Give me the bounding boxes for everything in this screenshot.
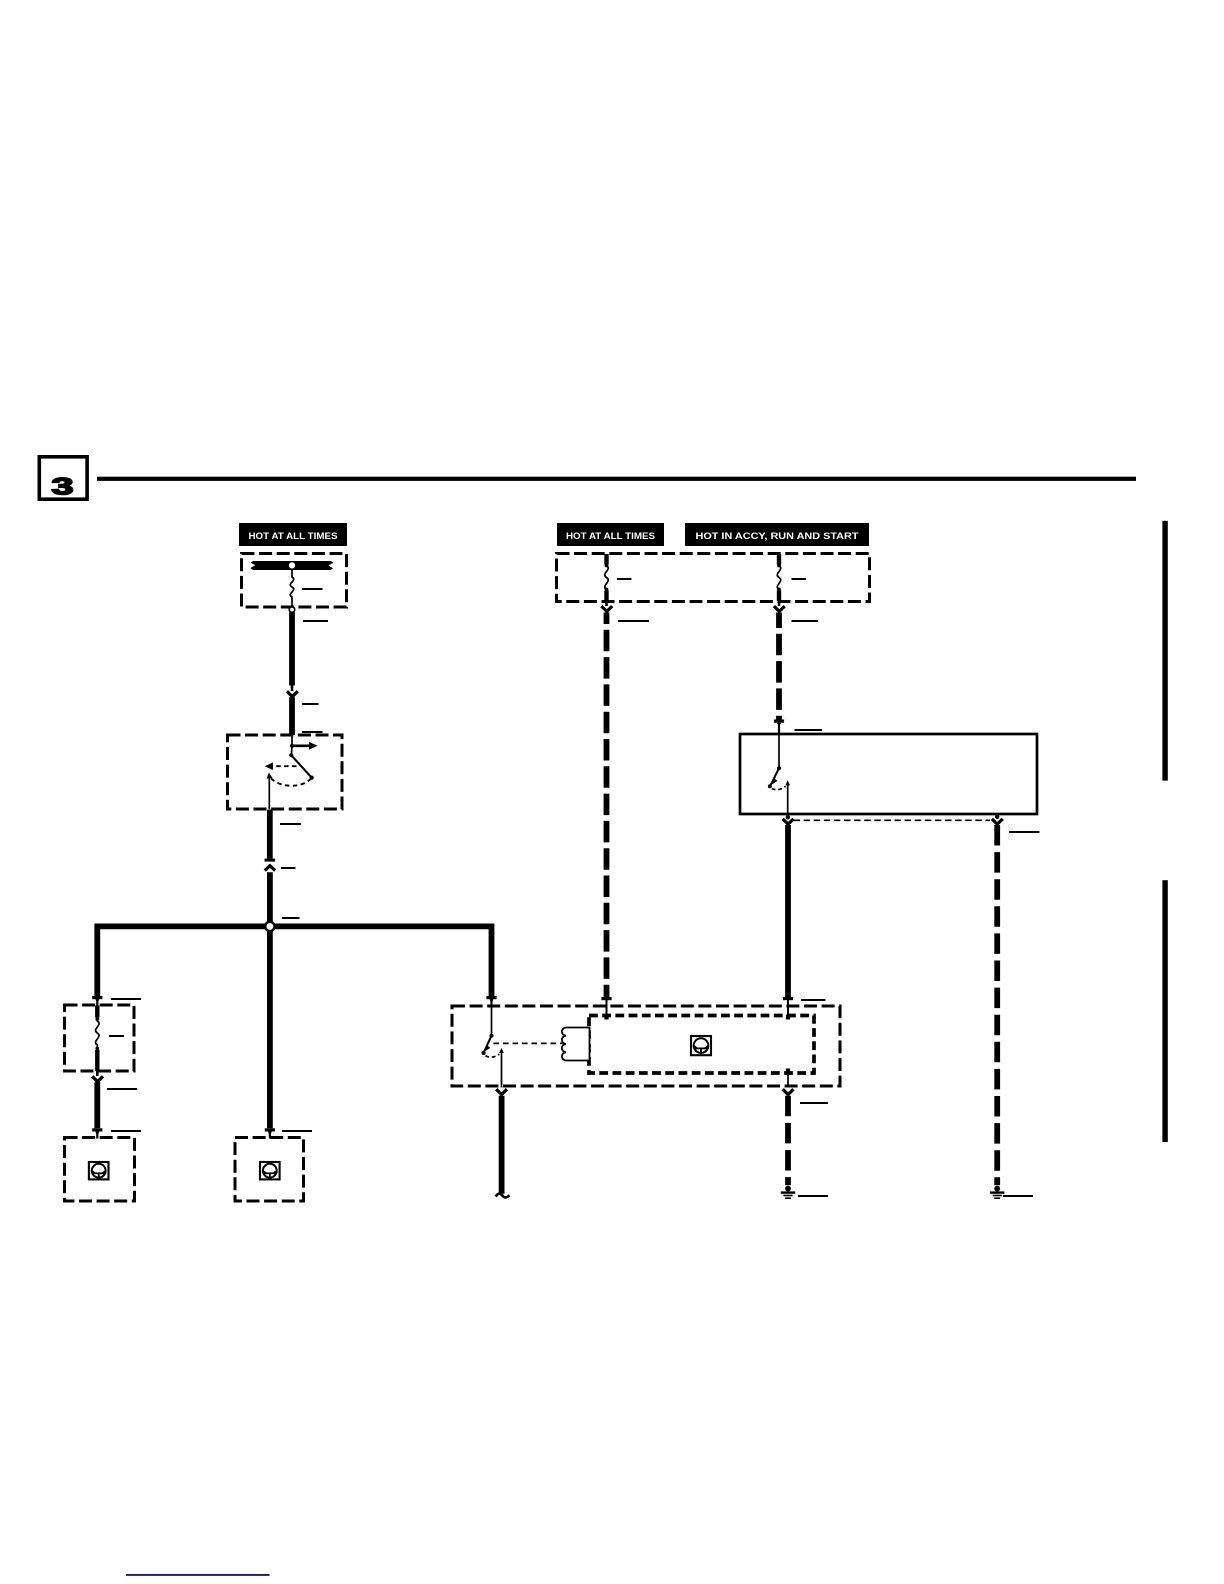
wire W1	[289, 612, 295, 685]
ground G2	[781, 1186, 795, 1199]
switch S1 output arrow (right)	[292, 742, 318, 750]
connector A2 label line	[281, 867, 296, 869]
connector A7 (foot and pin into outer assembly box)	[486, 996, 496, 1007]
fuse F3 terminal stub top	[604, 554, 608, 565]
wire W14 label line	[800, 1102, 828, 1104]
label plate HOT IN ACCY, RUN AND START	[685, 523, 869, 546]
connector A6 (foot and pin into M2 box)	[265, 1128, 275, 1138]
switch S1 box (dashed)	[228, 735, 343, 809]
connector A3 (foot and pin into B2)	[92, 996, 102, 1007]
switch S3 pivot dot	[490, 1034, 494, 1038]
switch S2 pivot dot	[777, 766, 781, 770]
relay K1 box	[740, 734, 1037, 814]
wire W12 (dashed)	[994, 825, 1000, 1185]
fuse box B2 (dashed)	[65, 1005, 135, 1071]
outer assembly box (dashed)	[452, 1006, 840, 1086]
section bar right upper	[1162, 521, 1167, 781]
switch S3 dashed travel arc	[485, 1054, 499, 1057]
wire W10 label line	[792, 620, 819, 622]
switch S1 pivot dot	[289, 753, 293, 757]
bus wire (left drop, horizontal run, right drop)	[97, 926, 491, 996]
fuse F3	[605, 564, 609, 592]
page index box "3"	[39, 457, 87, 501]
fuse F2	[95, 1017, 99, 1050]
junction J1 ring	[265, 922, 274, 931]
wire W9 (dashed)	[604, 613, 610, 998]
ground G1 label line	[1003, 1195, 1033, 1197]
fuse F1 label line	[302, 588, 323, 590]
motor box M2 (dashed)	[235, 1138, 304, 1202]
connector A10 (foot and pin into relay K1)	[774, 720, 784, 735]
relay coil L1 (scalloped left edge)	[562, 1028, 590, 1061]
wire W14 (dashed)	[785, 1096, 791, 1186]
fuse F2 terminal stub top	[95, 1006, 99, 1018]
switch S3 exit lead	[501, 1053, 503, 1088]
wire W2 label line	[302, 703, 319, 705]
pump return lead (bottom right)	[786, 1069, 790, 1088]
junction label line	[282, 917, 300, 919]
fuse F2 label line	[109, 1035, 124, 1037]
switch S1 blade	[291, 755, 313, 779]
connector A3 label line	[111, 998, 141, 1000]
motor symbol M3	[691, 1036, 711, 1055]
switch S2 blade with arrowhead	[768, 768, 779, 788]
wire W4 (vertical through junction)	[267, 872, 273, 1128]
wire W9 label line	[618, 620, 649, 622]
ground G1	[990, 1186, 1004, 1199]
connector A10 label line	[795, 729, 823, 731]
connector A8 (pin and cup below B3 left)	[601, 602, 612, 612]
switch S2 dashed travel arc	[772, 786, 786, 789]
motor box M1 (dashed)	[65, 1138, 135, 1202]
pump feed label line (right)	[801, 999, 826, 1001]
fuse F3 terminal stub bottom	[604, 591, 608, 602]
switch S2 exit lead	[787, 785, 789, 815]
wire W1 label line	[303, 620, 328, 622]
connector ring at B1 exit	[289, 607, 294, 612]
wire W3 label line	[280, 823, 301, 825]
switch S3 entry lead	[491, 1007, 493, 1035]
connector A2 (foot and chevron, pointing up)	[265, 859, 276, 871]
dashed link line under K1	[794, 819, 991, 821]
relay K1 switch S2 entry lead	[778, 734, 780, 768]
K1 left exit dot and cup	[783, 815, 794, 824]
connector A5 (foot and pin into M1 box)	[92, 1128, 102, 1138]
connector A6 label line	[282, 1130, 312, 1132]
busbar terminal circle	[288, 562, 295, 569]
footer blue rule	[126, 1574, 270, 1576]
wire W6	[94, 1082, 100, 1128]
connector cup below outer box (right)	[783, 1089, 794, 1094]
fuse box B1 (dashed)	[242, 554, 347, 608]
switch S1 pin label line	[302, 731, 323, 733]
connector A9 (pin and cup below B3 right)	[774, 602, 785, 612]
label plate HOT AT ALL TIMES (middle)	[557, 523, 664, 546]
svg-text:HOT AT ALL TIMES: HOT AT ALL TIMES	[566, 531, 655, 541]
pump feed pin (middle, from W9)	[601, 997, 611, 1020]
ground G2 label line	[798, 1195, 828, 1197]
wire W6 label line	[107, 1088, 137, 1090]
K1 right exit dot and cup	[992, 815, 1003, 825]
fuse F4 terminal stub bottom	[777, 591, 781, 602]
switch S1 common terminal dot	[290, 744, 294, 748]
switch S1 arc end arrowhead	[267, 773, 273, 779]
fuse F2 terminal stub bottom	[95, 1050, 99, 1071]
switch S1 entry lead	[291, 737, 293, 746]
svg-text:HOT AT ALL TIMES: HOT AT ALL TIMES	[249, 531, 338, 541]
wire W10 (dashed)	[776, 613, 782, 720]
switch S3 blade with arrowhead	[482, 1036, 492, 1055]
wire W3	[267, 810, 273, 859]
pump feed pin (right, from W11)	[783, 997, 793, 1020]
svg-text:HOT IN ACCY, RUN AND START: HOT IN ACCY, RUN AND START	[696, 531, 860, 541]
switch S1 dashed travel arc	[270, 776, 312, 785]
fuse F1	[290, 569, 293, 607]
fuse F3 label line	[617, 578, 632, 580]
switch S3 contact arrowhead (up)	[499, 1048, 504, 1053]
switch S1 exit lead	[268, 777, 270, 810]
wire W2	[289, 697, 295, 735]
switch S1 dashed arrow (left)	[265, 762, 297, 770]
switch S2 contact arrowhead (up)	[785, 780, 790, 785]
connector cup below outer box (left)	[496, 1089, 507, 1094]
motor symbol M2	[260, 1162, 280, 1179]
wire W13	[499, 1096, 505, 1194]
connector A4 (pin and cup below B2)	[92, 1071, 103, 1082]
fuse F4 label line	[792, 578, 807, 580]
wire W12 label line	[1009, 831, 1040, 833]
connector A5 label line	[111, 1130, 141, 1132]
fuse F4 terminal stub top	[777, 554, 781, 565]
switch S1 link lead between terminals	[290, 746, 293, 756]
header rule	[97, 477, 1136, 481]
wire W11	[785, 825, 791, 997]
inner pump box (dashed)	[589, 1016, 814, 1074]
fuse F4	[777, 564, 781, 592]
fuse box B3 (dashed, wide)	[557, 554, 870, 602]
motor symbol M1	[89, 1162, 109, 1179]
svg-text:3: 3	[52, 474, 74, 501]
connector A1 (pin and cup, pointing down)	[287, 686, 298, 697]
dashed link from S3 to coil L1	[494, 1042, 563, 1044]
label plate HOT AT ALL TIMES (left)	[239, 523, 347, 546]
section bar right lower	[1162, 880, 1167, 1142]
busbar in B1	[250, 561, 333, 570]
wire W13 wavy end	[496, 1194, 510, 1198]
